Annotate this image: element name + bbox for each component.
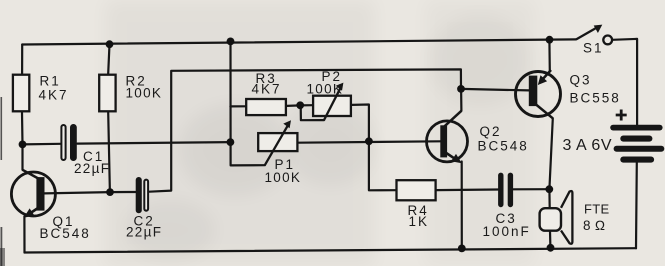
- node C3/Q3 collector/speaker: [545, 185, 553, 193]
- battery B1 3A 6V: [563, 110, 665, 163]
- wire Q3 collector down: [549, 118, 552, 189]
- wire Q2 emitter to ground rail: [461, 162, 463, 249]
- node R2/Q1 base/C2: [106, 188, 114, 196]
- wire P2 left lead: [300, 104, 312, 106]
- svg-text:FTE: FTE: [584, 202, 609, 217]
- svg-text:100K: 100K: [265, 170, 302, 185]
- wire battery minus lead: [635, 163, 638, 249]
- resistor R1: [13, 74, 69, 112]
- wire R1 top: [21, 45, 23, 74]
- wire R2 bottom: [108, 112, 110, 192]
- svg-text:3 A 6V: 3 A 6V: [563, 137, 613, 154]
- svg-text:1K: 1K: [409, 214, 430, 229]
- wire R3 left lead: [230, 105, 245, 107]
- node R3 drop/V+: [227, 38, 235, 46]
- wire node to Q3 base: [461, 89, 529, 91]
- scan edge artifacts: [0, 97, 5, 266]
- wire node to Q2 collector: [460, 89, 462, 111]
- wire Q3 emitter from rail: [548, 40, 551, 72]
- transistor Q1: [11, 170, 90, 241]
- node speaker/ground: [547, 244, 555, 252]
- wire C2 left: [110, 191, 136, 193]
- wire speaker top lead: [548, 189, 550, 208]
- wire Q1 emitter to ground rail: [23, 216, 25, 252]
- svg-text:Q2: Q2: [480, 124, 502, 139]
- wire node to R4 left: [369, 141, 395, 190]
- svg-text:4K7: 4K7: [39, 88, 69, 103]
- node S1/Q3 emitter: [546, 36, 554, 44]
- svg-text:R1: R1: [40, 74, 61, 89]
- svg-text:Q3: Q3: [570, 73, 592, 88]
- svg-text:22µF: 22µF: [74, 161, 110, 176]
- node Q2 emitter/ground: [458, 245, 466, 253]
- wire C1 right to node: [77, 142, 230, 144]
- wire bottom rail: [25, 248, 637, 252]
- wire C3 right to node: [513, 188, 549, 190]
- wire R3 right lead: [287, 104, 300, 107]
- node R1/C1/Q1 collector: [19, 141, 27, 149]
- capacitor C3: [483, 173, 531, 239]
- wire Q1 collector: [21, 144, 23, 169]
- potentiometer P1: [258, 120, 301, 185]
- resistor R3: [246, 71, 286, 115]
- svg-text:8 Ω: 8 Ω: [583, 218, 606, 233]
- capacitor C1: [61, 124, 110, 176]
- wire Q1 base: [45, 192, 110, 193]
- wire rail to battery plus: [612, 39, 637, 125]
- wire R1 bottom: [21, 112, 24, 144]
- wire R4 right to C3 left: [437, 188, 498, 191]
- svg-text:BC548: BC548: [478, 139, 529, 154]
- potentiometer P2: [307, 69, 351, 120]
- wire top rail: [22, 39, 576, 44]
- node R2/V+: [106, 40, 114, 48]
- svg-text:100K: 100K: [126, 86, 163, 101]
- speaker FTE: [540, 191, 610, 244]
- svg-text:S1: S1: [583, 41, 604, 56]
- wire P1 right to Q2 base: [299, 141, 441, 142]
- node Q2 collector/Q3 base: [457, 85, 465, 93]
- svg-text:100K: 100K: [307, 82, 344, 97]
- wire speaker bottom lead: [549, 231, 552, 248]
- resistor R4: [397, 180, 436, 229]
- svg-text:100nF: 100nF: [483, 224, 531, 239]
- svg-text:4K7: 4K7: [252, 82, 282, 97]
- capacitor C2: [126, 177, 162, 239]
- switch S1: [576, 25, 612, 56]
- resistor R2: [99, 74, 162, 112]
- wire C1 left: [23, 143, 61, 146]
- svg-text:BC558: BC558: [570, 91, 621, 106]
- wire P2 wiper tail: [301, 105, 324, 120]
- node R3/P2: [296, 101, 304, 109]
- svg-text:22µF: 22µF: [126, 224, 162, 239]
- node P1/P2/Q2 base/R4: [365, 137, 373, 145]
- wire R2 top: [108, 44, 109, 73]
- node C1/P1: [227, 138, 235, 146]
- wire C2 right feedback riser: [149, 69, 461, 191]
- transistor Q3: [516, 70, 621, 118]
- wire V+ rail drop to R3 node: [231, 41, 265, 165]
- svg-text:BC548: BC548: [40, 226, 91, 241]
- wire P2 right lead down: [352, 105, 369, 142]
- transistor Q2: [427, 111, 529, 163]
